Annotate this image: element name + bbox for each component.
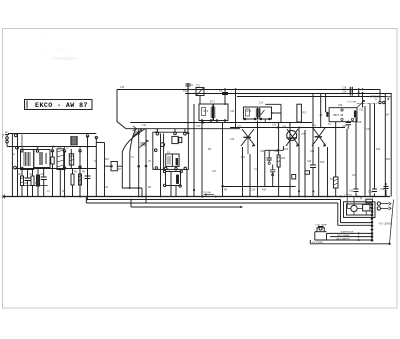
driver transformer BFT43 <box>326 108 357 122</box>
capacitor C11 on bus1 <box>342 87 352 92</box>
wire column x305 <box>304 130 306 196</box>
capacitor C4 <box>41 169 47 197</box>
right edge wire x391.5 <box>390 93 392 197</box>
oscillator coil L2 <box>69 137 77 169</box>
svg-text:R19: R19 <box>376 149 381 151</box>
wire column x138.7 <box>137 129 140 196</box>
aerial terminals <box>5 131 9 146</box>
svg-text:EARPHONE: EARPHONE <box>341 231 354 234</box>
capacitor C5 <box>85 169 91 197</box>
svg-text:R13: R13 <box>284 149 289 151</box>
gang section trimmer 2 <box>139 141 148 149</box>
resistor R5 <box>71 169 74 197</box>
output stage cluster inner loop <box>347 204 373 215</box>
wire column x163.6 <box>163 134 165 172</box>
wire column x194 <box>193 104 195 197</box>
wire x374.5 down capacitor C15 <box>372 104 377 197</box>
junction box B <box>305 171 310 174</box>
svg-text:C21: C21 <box>274 151 279 153</box>
svg-text:C11: C11 <box>142 125 147 127</box>
wire column x187 <box>186 169 188 196</box>
wire column x299 <box>298 128 300 197</box>
wire column x87.5 <box>86 135 88 201</box>
harness wire 2 <box>330 234 371 238</box>
wire x370 down <box>369 104 371 197</box>
transistor T3 <box>286 129 299 147</box>
pickup socket circles <box>377 202 391 210</box>
cluster internal wires <box>347 197 372 216</box>
svg-text:C8: C8 <box>105 187 109 189</box>
wire column x104.5 <box>104 143 106 197</box>
svg-text:C17: C17 <box>212 171 217 173</box>
dial cord curve <box>122 126 145 152</box>
wire column x122 <box>121 152 123 188</box>
wire column x96.3 <box>95 136 97 196</box>
wire column x313 capacitor C10 <box>310 93 316 197</box>
svg-text:C7: C7 <box>47 191 51 193</box>
svg-text:JW STRAP: JW STRAP <box>312 241 324 244</box>
svg-text:L3: L3 <box>86 147 89 149</box>
wire column x235.5 <box>235 88 237 129</box>
wire top-left horizontal <box>8 133 96 135</box>
capacitor C9 <box>270 165 275 187</box>
wire column x327.5 <box>327 147 329 197</box>
trimmer capacitor CT <box>196 88 204 105</box>
transistor T2 <box>241 129 255 154</box>
svg-text:C35: C35 <box>368 192 373 194</box>
dial lamp feed dot arrow <box>202 191 214 198</box>
svg-text:···· ·· ······ ···: ···· ·· ······ ··· <box>40 46 72 52</box>
harness wire 1 <box>327 231 372 235</box>
wire column x176 <box>175 186 177 196</box>
svg-text:R8: R8 <box>148 187 152 189</box>
wire osc section <box>63 150 65 169</box>
svg-text:C29: C29 <box>338 105 343 107</box>
svg-text:TC1: TC1 <box>196 86 201 88</box>
wire column x242.5 <box>242 147 244 196</box>
long wire loop A <box>86 197 371 223</box>
wire osc link <box>265 146 284 186</box>
right edge wire x384.5 <box>384 94 386 197</box>
wire second horizontal <box>7 146 96 148</box>
svg-text:L2: L2 <box>66 148 69 150</box>
wire column x290 <box>289 123 291 197</box>
svg-text:R12: R12 <box>281 158 286 160</box>
svg-text:C19: C19 <box>251 189 256 191</box>
wire step to mid <box>96 142 104 144</box>
junction dots mid right <box>298 190 314 192</box>
tuning gang outline <box>117 89 240 129</box>
svg-text:C5: C5 <box>190 85 194 87</box>
svg-text:C9: C9 <box>148 161 152 163</box>
svg-text:C24: C24 <box>310 151 315 153</box>
resistor R10 <box>277 123 280 197</box>
capacitor C2 <box>51 150 54 169</box>
IF transformer IFT1 <box>199 104 228 121</box>
wire column x129.5 <box>129 152 131 188</box>
svg-text:R17: R17 <box>303 113 308 115</box>
svg-text:DIAL LAMP: DIAL LAMP <box>316 223 328 226</box>
pin stubs top row <box>22 135 80 151</box>
svg-text:VT2: VT2 <box>237 127 242 129</box>
resistor R4 <box>37 169 40 197</box>
svg-text:C38: C38 <box>342 88 347 90</box>
wire x358.7 <box>358 89 360 97</box>
wire mid horizontal <box>223 186 296 188</box>
svg-text:C39: C39 <box>342 92 347 94</box>
capacitor C8 <box>267 150 272 164</box>
tiny value labels <box>12 85 391 194</box>
wire column x320.7 <box>320 93 322 128</box>
svg-text:C26: C26 <box>307 161 312 163</box>
svg-text:REC/GRAM: REC/GRAM <box>338 234 350 237</box>
wire row divider <box>15 168 96 170</box>
svg-text:·· ···периодич··: ·· ···периодич·· <box>42 56 81 62</box>
svg-text:P.U. LEADS: P.U. LEADS <box>379 223 392 226</box>
wire column x189 <box>187 89 190 133</box>
svg-text:IFT1: IFT1 <box>203 109 209 113</box>
junction box A <box>292 175 296 180</box>
coil can stubs <box>157 129 185 133</box>
svg-text:AE: AE <box>5 131 8 134</box>
wire x365 down <box>364 106 366 197</box>
svg-text:VT5: VT5 <box>301 134 306 136</box>
pickup bracket diagonal <box>390 200 394 244</box>
svg-text:C36: C36 <box>380 189 385 191</box>
harness wire 3 <box>317 237 371 241</box>
top bus line 3 <box>237 96 387 98</box>
capacitor C6 on bus <box>186 83 191 90</box>
svg-text:C30: C30 <box>342 126 347 128</box>
svg-text:VT4: VT4 <box>312 126 317 128</box>
svg-text:C31: C31 <box>359 110 364 112</box>
top bus line 1 <box>117 89 380 91</box>
resistor R3 <box>31 169 34 197</box>
gang section trimmer 1 <box>133 130 142 138</box>
wire column x222.5 <box>221 123 223 197</box>
svg-text:C15: C15 <box>272 125 277 127</box>
svg-text:C33: C33 <box>349 191 354 193</box>
svg-text:R16: R16 <box>330 179 335 181</box>
wire aerial down <box>11 134 13 197</box>
svg-text:C13: C13 <box>230 111 235 113</box>
svg-text:R4: R4 <box>62 191 66 193</box>
wire under IFTs <box>130 122 312 124</box>
wire stub x64.5 <box>64 169 66 197</box>
fuse box <box>366 199 373 203</box>
wire column x146 <box>145 129 148 203</box>
svg-text:S2: S2 <box>375 99 378 101</box>
svg-text:R14: R14 <box>262 189 267 191</box>
svg-text:TC2: TC2 <box>183 91 188 93</box>
svg-text:R20: R20 <box>386 159 391 161</box>
volume control dash link <box>347 101 378 108</box>
svg-text:R6: R6 <box>82 172 86 174</box>
resistor R6 <box>79 169 82 197</box>
resistor R2 <box>21 169 24 197</box>
oscillator coil can assembly <box>153 132 189 170</box>
svg-text:S1: S1 <box>12 154 16 156</box>
svg-text:·· ····· ···: ·· ····· ··· <box>38 36 60 42</box>
svg-text:R18: R18 <box>357 122 362 124</box>
svg-text:EKCO - AW 87: EKCO - AW 87 <box>35 102 88 109</box>
svg-text:R15: R15 <box>320 162 325 164</box>
diode D1 <box>105 162 123 171</box>
svg-text:C32: C32 <box>366 129 371 131</box>
wire row2 bottom link <box>21 185 48 187</box>
svg-text:T2: T2 <box>131 157 134 159</box>
svg-text:C6: C6 <box>94 161 98 163</box>
svg-text:SPEECH: SPEECH <box>370 96 380 98</box>
resistor R1 box <box>57 149 64 170</box>
svg-text:7: 7 <box>2 134 5 139</box>
svg-text:L.SPKR: L.SPKR <box>344 195 352 197</box>
svg-text:R7: R7 <box>118 169 122 171</box>
harness wire 4 <box>310 240 390 245</box>
wire column x202 <box>201 121 203 197</box>
svg-text:T3: T3 <box>328 124 331 126</box>
wire column x80 <box>79 150 81 196</box>
svg-text:IFT1: IFT1 <box>210 102 215 104</box>
svg-text:C34: C34 <box>352 175 357 177</box>
ghost print-through smudge <box>38 36 81 62</box>
wire transistor base rail <box>230 127 345 129</box>
long wire arrow C <box>130 199 243 209</box>
wire x356 down capacitor C14 <box>354 118 359 197</box>
bus junction dots <box>64 196 374 198</box>
wire column x160.5 <box>160 134 162 197</box>
svg-text:R5: R5 <box>74 172 78 174</box>
IF transformer IFT2 <box>244 104 282 122</box>
svg-text:R2: R2 <box>18 174 22 176</box>
svg-text:C20: C20 <box>260 151 265 153</box>
OFF ON switch <box>375 89 386 103</box>
wire x347 down <box>346 129 348 197</box>
capacitor C12 on bus2 <box>342 91 352 96</box>
svg-text:C10: C10 <box>120 87 125 89</box>
oscillator trimmer box <box>163 170 182 187</box>
junction dot x203 <box>202 122 204 124</box>
wire stub x60.3 <box>59 170 61 197</box>
svg-text:BY: BY <box>387 114 391 117</box>
svg-text:R11: R11 <box>241 157 246 159</box>
svg-text:AE & EARTH: AE & EARTH <box>337 237 350 240</box>
svg-text:C16: C16 <box>230 139 235 141</box>
svg-text:C14: C14 <box>259 103 264 105</box>
terminal tick 2 <box>4 195 6 199</box>
svg-text:R9: R9 <box>208 149 212 151</box>
wire column x325.6 <box>325 93 328 112</box>
wire x362.5 <box>362 93 364 108</box>
battery cell <box>387 97 392 117</box>
svg-text:L4: L4 <box>167 152 170 154</box>
capacitor C3 <box>25 169 31 197</box>
terminal strip dots <box>371 203 374 241</box>
top bus line 2 <box>185 93 391 95</box>
svg-text:VOLUME: VOLUME <box>347 101 357 103</box>
bus junction dots right <box>358 88 364 94</box>
dial lamp <box>315 223 328 231</box>
wire column x257.5 <box>257 121 259 197</box>
wire column x250 <box>249 154 251 197</box>
capacitor C13 <box>346 121 352 129</box>
capacitor C16 <box>384 183 389 197</box>
svg-text:C18: C18 <box>254 169 259 171</box>
lamp enclosure <box>315 232 327 240</box>
resistor R17 <box>297 104 308 122</box>
svg-text:VT3: VT3 <box>282 127 287 129</box>
svg-text:TO DIAL: TO DIAL <box>203 191 212 194</box>
long wire loop B <box>86 200 371 226</box>
title plate EKCO - AW 87 <box>25 100 93 110</box>
svg-text:IFT2: IFT2 <box>246 109 252 113</box>
wire stub x171 <box>170 186 172 197</box>
coil L1 box <box>21 150 34 170</box>
svg-text:VT1: VT1 <box>196 126 201 128</box>
thermistor box <box>361 197 370 211</box>
wire AGC link <box>122 187 142 197</box>
wire column x318.7 <box>318 147 320 196</box>
transistor T5 <box>351 197 357 212</box>
wave switch column <box>14 134 19 197</box>
transistor T4 <box>312 128 326 147</box>
trimmer capacitor box <box>34 150 50 168</box>
svg-text:BFT 43: BFT 43 <box>334 113 344 117</box>
svg-text:R9: R9 <box>224 189 228 191</box>
output stage cluster outer loop <box>344 202 376 218</box>
svg-text:MR1: MR1 <box>104 159 110 161</box>
chassis bus rail <box>3 196 390 198</box>
capacitor C7 <box>222 88 228 105</box>
wire stub x52.5 <box>52 169 54 197</box>
resistor R11 <box>334 122 339 197</box>
